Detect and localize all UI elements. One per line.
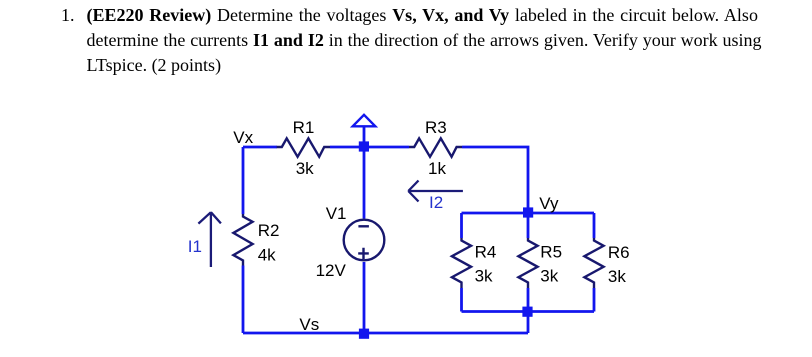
wire bottom rail left (to Vs node) <box>243 332 364 335</box>
svg-text:4k: 4k <box>258 246 276 265</box>
wire R4 bottom stub <box>460 288 463 312</box>
resistor R6 <box>584 238 603 288</box>
wire center vertical lower (V1 to Vs node) <box>363 262 366 333</box>
svg-text:3k: 3k <box>475 266 493 285</box>
resistor R1 <box>277 138 330 156</box>
svg-text:12V: 12V <box>316 261 347 280</box>
wire R5 bottom stub <box>527 288 530 312</box>
current arrow I1 (up) <box>198 212 221 267</box>
resistor R2 <box>233 214 252 266</box>
resistor R5 <box>518 238 537 288</box>
svg-text:R3: R3 <box>425 118 447 137</box>
svg-text:I1: I1 <box>188 237 202 256</box>
wire R6 top stub <box>593 213 596 238</box>
wire left vertical lower (R2 to bottom rail) <box>242 266 245 334</box>
wire R1 to center node <box>330 146 364 149</box>
wire bank bottom rail <box>462 310 595 313</box>
resistor R4 <box>452 238 471 288</box>
voltage source V1 (circle) <box>344 220 385 261</box>
junction at Vs node <box>359 329 369 339</box>
svg-text:3k: 3k <box>608 267 626 286</box>
svg-text:R4: R4 <box>475 243 497 262</box>
svg-text:V1: V1 <box>326 204 347 223</box>
wire R4 top stub <box>460 213 463 238</box>
current arrow I2 (left) <box>408 181 463 202</box>
wire left vertical upper (Vx to R2) <box>242 147 245 214</box>
V1 minus sign <box>358 225 369 227</box>
junction at top center node <box>359 141 369 151</box>
wire R6 bottom stub <box>593 288 596 312</box>
wire bank to bottom rail <box>527 312 530 334</box>
wire R5 top stub <box>527 213 530 238</box>
svg-text:R2: R2 <box>258 221 280 240</box>
wire top-left: Vx corner to R1 <box>243 146 277 149</box>
svg-text:3k: 3k <box>296 159 314 178</box>
svg-text:R1: R1 <box>293 118 315 137</box>
V1 plus sign <box>358 248 369 259</box>
wire bottom rail right (Vs node to bank) <box>364 332 528 335</box>
wire center node to R3 <box>364 146 409 149</box>
junction at Vy node <box>523 207 533 217</box>
net flag (antenna) triangle <box>353 115 376 127</box>
svg-text:1k: 1k <box>428 159 446 178</box>
wire R3 to top-right corner, down to Vy node <box>462 147 528 213</box>
svg-text:R5: R5 <box>540 243 562 262</box>
junction at bank bottom node <box>522 307 532 317</box>
svg-text:R6: R6 <box>608 243 630 262</box>
svg-text:Vy: Vy <box>539 194 559 213</box>
svg-text:I2: I2 <box>429 193 443 212</box>
wire Vy rail <box>462 212 595 215</box>
svg-text:Vs: Vs <box>299 315 319 334</box>
svg-text:Vx: Vx <box>233 128 253 147</box>
wire center vertical upper (node to V1) <box>363 147 366 219</box>
resistor R3 <box>409 138 462 156</box>
net flag (antenna) stem at top node <box>363 127 366 147</box>
svg-text:3k: 3k <box>540 266 558 285</box>
